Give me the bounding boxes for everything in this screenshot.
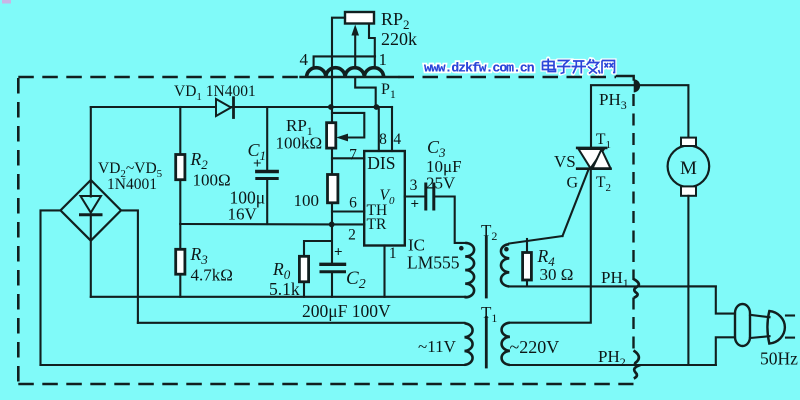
coil P1 winding humps (307, 68, 326, 77)
wire triac top (591, 85, 688, 148)
wire T1 primary bottom to PH2 (510, 364, 716, 366)
wire C3 to T2 (435, 197, 465, 243)
triac VS top bar (577, 147, 606, 150)
bridge rectifier VD2-VD5 diamond (61, 180, 122, 241)
wire bridge bottom vertex down (90, 241, 92, 297)
svg-text:+: + (411, 197, 420, 213)
RP2 left terminal wire (332, 18, 345, 57)
wire below 100 resistor (331, 203, 333, 263)
potentiometer RP2 body (345, 12, 374, 24)
resistor R4 stub bottom (526, 280, 528, 286)
connector PH2 curl (634, 351, 639, 379)
svg-text:1: 1 (378, 50, 387, 69)
wire pin2 (332, 223, 365, 225)
transducer capsule (735, 304, 750, 346)
wire R2 top (179, 107, 181, 155)
svg-text:8: 8 (379, 131, 387, 148)
svg-text:G: G (567, 175, 579, 192)
resistor R2 body (176, 155, 185, 180)
resistor R4 body (523, 253, 532, 281)
wire T2 primary bottom (464, 296, 466, 299)
wire R0 top elbow (304, 241, 332, 256)
svg-text:~220V: ~220V (510, 337, 560, 357)
enclosure dashed border right edge mid (632, 298, 634, 351)
enclosure dashed border bottom edge (18, 383, 633, 386)
svg-text:1: 1 (389, 245, 397, 262)
svg-text:50Hz: 50Hz (760, 349, 798, 369)
wire R3 bottom (179, 274, 181, 297)
RP1 wiper loop (332, 113, 364, 138)
svg-text:TR: TR (367, 216, 387, 233)
svg-text:4: 4 (299, 50, 308, 69)
wire bridge right vertex down (121, 210, 138, 322)
wire AC rail3 y=365 (41, 364, 465, 366)
capacitor C2 plates (321, 263, 345, 266)
svg-text:1N4001: 1N4001 (107, 176, 157, 193)
diode VD1 (216, 99, 231, 116)
enclosure dashed border top edge (left of coil) (18, 76, 301, 79)
wire T2 secondary top / gate rail (509, 236, 562, 244)
scan artifact top-left (2, 0, 11, 4)
watermark CJK 电子开发网 (drawn strokes) (543, 59, 615, 74)
enclosure dashed border right edge upper (632, 94, 634, 280)
wire common rail1 y=297 (91, 296, 466, 298)
junction node TH/TR (329, 222, 335, 228)
svg-text:100: 100 (294, 191, 320, 210)
wire motor bottom (687, 196, 689, 365)
junction node at main vertical (328, 104, 334, 110)
svg-text:30 Ω: 30 Ω (540, 265, 574, 284)
triac VS bottom bar (577, 167, 610, 170)
svg-text:6: 6 (349, 195, 357, 212)
tap 4 bracket wire (314, 56, 375, 67)
junction node at pin8 tap (374, 104, 380, 110)
wire R3 top (179, 224, 181, 249)
phase dot T2 secondary (504, 247, 509, 252)
phase dot T2 primary (459, 246, 464, 251)
wire T1 primary top to triac (510, 170, 591, 323)
wire pin1 (383, 246, 385, 297)
wire C2 bottom (331, 273, 333, 296)
transformer T2 secondary winding (501, 244, 509, 258)
wire R0 bottom (303, 282, 305, 297)
wire gate diagonal (563, 170, 589, 237)
potentiometer RP1 body (327, 123, 336, 148)
svg-text:DIS: DIS (367, 153, 395, 173)
bridge inner diode (90, 181, 92, 197)
svg-text:220k: 220k (381, 29, 417, 49)
svg-text:100Ω: 100Ω (193, 171, 231, 190)
svg-text:7: 7 (349, 147, 357, 164)
wire PH2 to horn (716, 337, 735, 365)
transformer T1 primary winding ~220V (502, 323, 510, 337)
wire pin3 (405, 195, 425, 197)
wire pin6 (332, 210, 364, 212)
svg-text:3: 3 (410, 177, 418, 194)
op-amp/timer IC LM555 box (364, 151, 405, 246)
RP2 wiper arrow (354, 33, 356, 68)
resistor R0 body (299, 256, 308, 282)
svg-text:VS: VS (554, 152, 576, 171)
svg-text:100kΩ: 100kΩ (276, 134, 323, 153)
wire pin4 (391, 107, 393, 151)
wire: top rail y=107 (91, 106, 392, 108)
svg-text:2: 2 (348, 227, 356, 244)
motor bottom brush (681, 186, 696, 195)
wire RP1 bottom (331, 148, 333, 175)
capacitor C1 plates (257, 170, 277, 173)
svg-text:16V: 16V (228, 205, 258, 224)
wire AC rail2 y=322.8 (138, 322, 465, 324)
svg-text:200μF 100V: 200μF 100V (302, 301, 391, 321)
wire pin7 (332, 157, 364, 159)
svg-text:4.7kΩ: 4.7kΩ (191, 266, 233, 285)
triac left triangle (579, 149, 605, 168)
motor top brush (681, 138, 696, 146)
enclosure dashed border top edge (right of coil) (399, 76, 617, 79)
transformer T1 core (485, 318, 488, 368)
wire T2 secondary bottom rail to PH1 (509, 285, 716, 287)
wire R2 bottom (179, 180, 181, 224)
svg-text:4: 4 (393, 131, 401, 148)
tap 1 wire (374, 56, 376, 67)
tap P1 wire (355, 77, 376, 107)
svg-text:25V: 25V (426, 174, 456, 193)
wire C1 bottom (266, 180, 268, 224)
svg-text:www.dzkfw.com.cn: www.dzkfw.com.cn (424, 61, 535, 76)
transformer T1 secondary winding ~11V (465, 323, 473, 337)
wire C1 top (266, 107, 268, 170)
triac right triangle (593, 149, 611, 168)
transformer T2 core (485, 237, 488, 297)
horn coupling lines (750, 315, 770, 317)
svg-text:LM555: LM555 (407, 253, 460, 273)
wire pin8 (378, 107, 380, 151)
motor M circle (668, 146, 710, 188)
wire mid rail y=224 (180, 223, 331, 225)
coil P1 baseline (301, 76, 399, 78)
horn bell (767, 311, 784, 344)
RP2 right terminal wire (369, 24, 375, 57)
resistor R4 stub top (526, 239, 528, 253)
capacitor C3 plates (424, 184, 427, 209)
wire bridge top to rail (90, 107, 92, 180)
transformer T2 primary winding (465, 243, 474, 257)
svg-text:+: + (334, 245, 343, 261)
wire: main vertical from RP2 to RP1 (331, 56, 333, 123)
wire bridge left vertex to outer loop (41, 210, 61, 365)
resistor R3 body (176, 249, 185, 274)
resistor 100 body (328, 175, 338, 203)
enclosure dashed border left edge (17, 78, 20, 384)
horn right stubs (786, 314, 794, 316)
enclosure border top-right corner solid stub (617, 76, 634, 80)
svg-text:M: M (680, 158, 697, 179)
svg-text:~11V: ~11V (418, 337, 457, 356)
connector PH1 curl (634, 279, 639, 298)
wire PH1 to horn (688, 286, 735, 313)
connector PH3 half disc (634, 79, 640, 92)
